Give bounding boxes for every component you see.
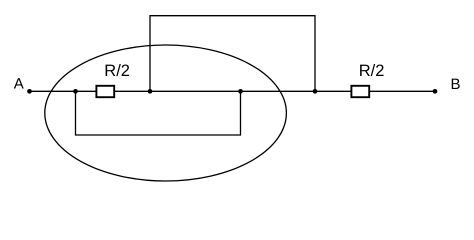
- wire R1 to R2: [115, 90, 352, 92]
- wire R2 to B: [370, 90, 436, 92]
- resistor R/2 (left): [96, 86, 114, 97]
- svg-text:R/2: R/2: [104, 62, 130, 80]
- node B: [433, 89, 438, 94]
- svg-text:B: B: [451, 76, 461, 93]
- resistor R/2 (right): [351, 86, 369, 97]
- ellipse enclosing left network: [45, 45, 287, 181]
- node A: [27, 89, 32, 94]
- svg-text:A: A: [14, 76, 24, 93]
- wire A to R1: [30, 90, 97, 92]
- node junction J2 (top loop left): [148, 89, 153, 94]
- wire bottom loop: [76, 91, 241, 135]
- svg-text:R/2: R/2: [359, 62, 385, 80]
- node junction J3 (bottom loop right): [238, 89, 243, 94]
- wire top loop: [150, 16, 315, 92]
- node junction J1 (bottom loop left): [73, 89, 78, 94]
- node junction J4 (top loop right): [313, 89, 318, 94]
